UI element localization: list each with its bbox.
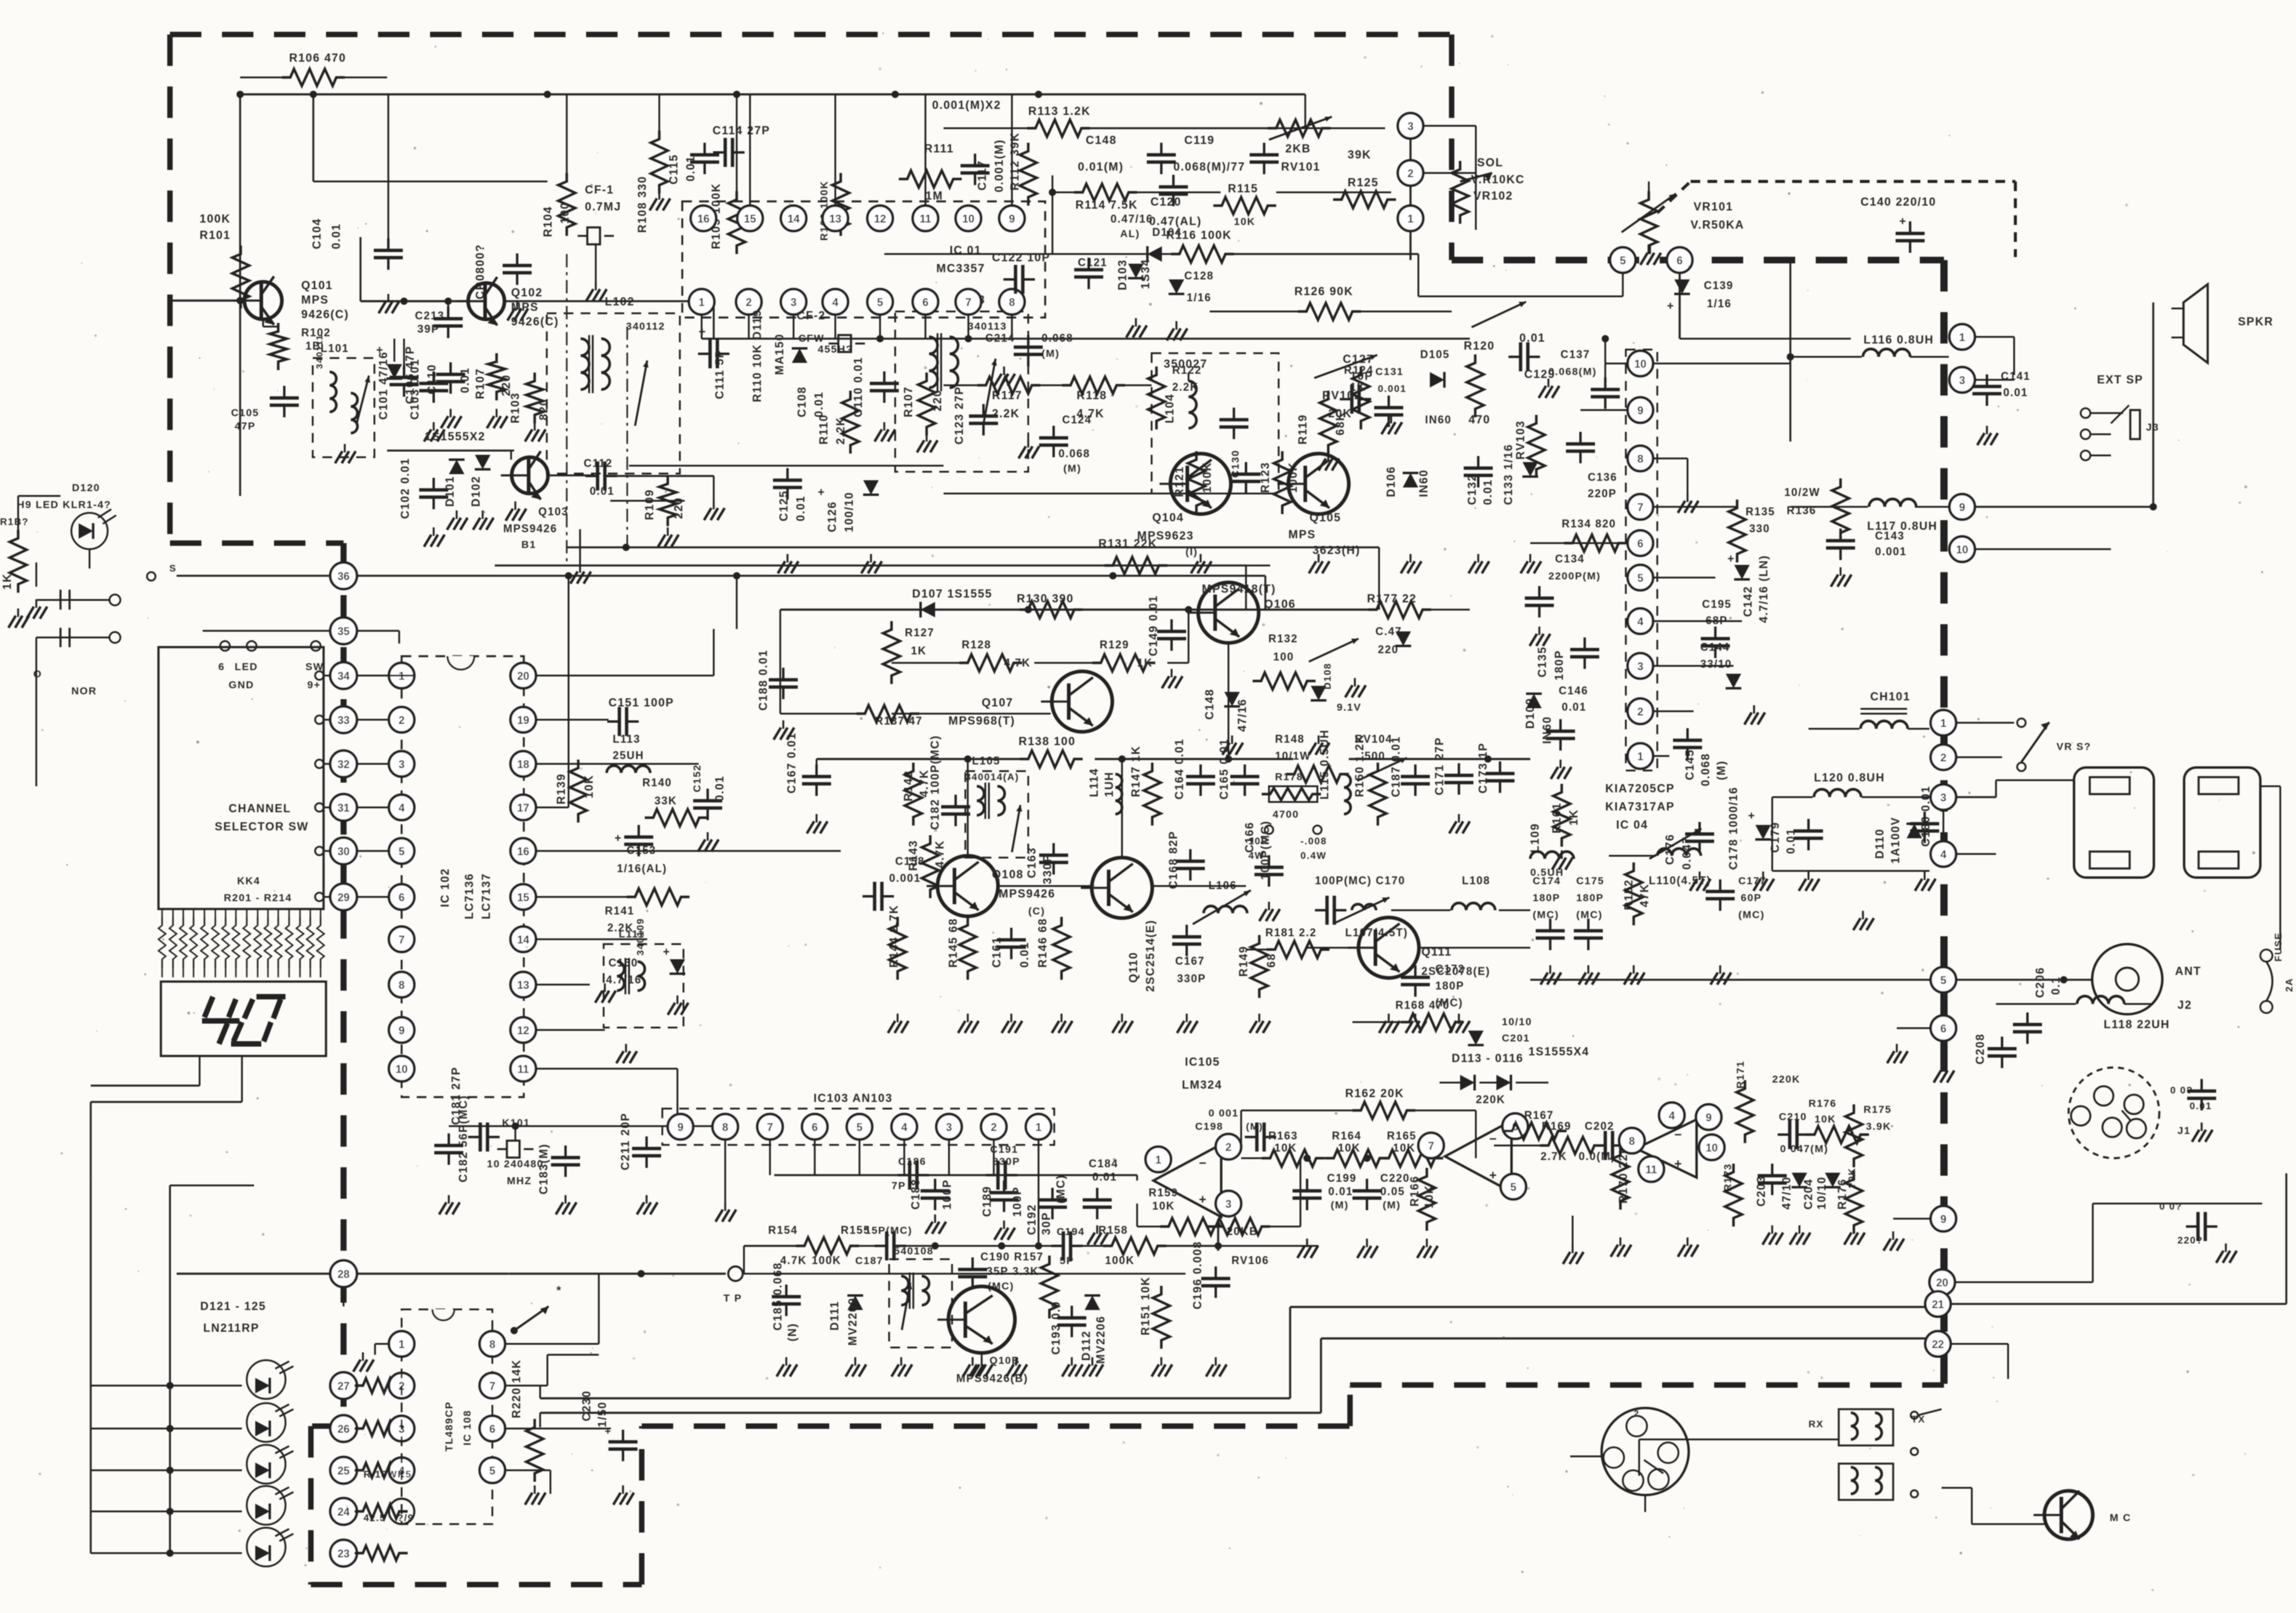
svg-text:+: + <box>615 832 622 845</box>
svg-text:20: 20 <box>1936 1277 1948 1289</box>
svg-text:100K: 100K <box>812 1254 841 1266</box>
svg-text:C119: C119 <box>1184 134 1215 147</box>
svg-text:100: 100 <box>1273 651 1294 663</box>
svg-text:R151 10K: R151 10K <box>1140 1276 1152 1335</box>
svg-text:9: 9 <box>1940 1213 1946 1225</box>
svg-text:5: 5 <box>877 296 883 308</box>
svg-text:330: 330 <box>1749 523 1770 535</box>
svg-text:5: 5 <box>1510 1181 1516 1193</box>
svg-text:IC 108: IC 108 <box>461 1410 473 1445</box>
svg-text:C187 0.01: C187 0.01 <box>1390 736 1403 797</box>
svg-text:MA150: MA150 <box>774 333 786 375</box>
svg-text:10: 10 <box>962 213 974 225</box>
svg-text:IC103 AN103: IC103 AN103 <box>814 1092 893 1105</box>
svg-text:C188: C188 <box>910 1179 922 1210</box>
svg-text:C198: C198 <box>1195 1121 1224 1132</box>
svg-text:IC105: IC105 <box>1185 1056 1220 1069</box>
svg-text:18: 18 <box>517 758 529 771</box>
svg-text:R167: R167 <box>1524 1109 1554 1121</box>
svg-text:3: 3 <box>1637 660 1643 673</box>
svg-text:SELECTOR SW: SELECTOR SW <box>215 821 309 833</box>
svg-text:6: 6 <box>218 661 225 673</box>
svg-text:1K: 1K <box>1350 381 1366 393</box>
svg-text:−: − <box>1199 1156 1207 1170</box>
svg-text:C175: C175 <box>1576 875 1605 887</box>
svg-text:R165: R165 <box>1387 1130 1417 1142</box>
svg-text:0 0?: 0 0? <box>2159 1202 2182 1212</box>
svg-text:Q108: Q108 <box>992 868 1023 881</box>
svg-text:+: + <box>1199 1193 1207 1207</box>
svg-text:MPS9418(T): MPS9418(T) <box>1202 583 1276 596</box>
svg-text:IN60: IN60 <box>1418 469 1430 497</box>
svg-text:1: 1 <box>1407 213 1414 225</box>
svg-text:455H?: 455H? <box>818 344 853 355</box>
svg-text:R107: R107 <box>474 368 487 399</box>
svg-text:R119: R119 <box>1297 414 1309 445</box>
svg-text:L118 22UH: L118 22UH <box>2104 1018 2170 1031</box>
svg-text:2: 2 <box>1940 752 1946 764</box>
svg-text:1: 1 <box>1155 1154 1161 1166</box>
svg-text:(MC): (MC) <box>1055 1175 1068 1204</box>
svg-text:C167 0.01: C167 0.01 <box>786 732 798 793</box>
svg-text:LN211RP: LN211RP <box>203 1322 259 1335</box>
svg-text:D112: D112 <box>1080 1331 1093 1361</box>
svg-text:340014(A): 340014(A) <box>965 772 1019 783</box>
svg-text:D105: D105 <box>1420 348 1450 360</box>
svg-text:220P: 220P <box>1588 487 1617 500</box>
svg-text:C152: C152 <box>691 764 703 792</box>
svg-text:9+: 9+ <box>307 679 321 691</box>
svg-text:0.01: 0.01 <box>330 223 343 249</box>
svg-text:RX: RX <box>1808 1419 1824 1430</box>
svg-text:3: 3 <box>399 758 405 771</box>
svg-text:220: 220 <box>931 389 944 411</box>
svg-text:16: 16 <box>697 213 709 225</box>
svg-text:5: 5 <box>399 846 405 858</box>
svg-text:10: 10 <box>1706 1142 1718 1154</box>
svg-text:Q106: Q106 <box>1264 598 1296 611</box>
svg-text:C191: C191 <box>990 1144 1019 1155</box>
svg-text:R115: R115 <box>1228 183 1258 195</box>
svg-text:R1B?: R1B? <box>0 517 29 527</box>
svg-text:9: 9 <box>399 1025 405 1037</box>
svg-text:0.01: 0.01 <box>1019 942 1031 968</box>
svg-text:+: + <box>376 344 384 357</box>
svg-text:(M): (M) <box>1331 1199 1349 1211</box>
svg-text:MPS9426: MPS9426 <box>503 523 558 535</box>
svg-text:L113: L113 <box>613 733 641 745</box>
svg-text:R154: R154 <box>768 1224 798 1236</box>
svg-text:0 001: 0 001 <box>1208 1107 1239 1119</box>
svg-text:+: + <box>1899 215 1907 228</box>
svg-text:R113 1.2K: R113 1.2K <box>1028 105 1091 118</box>
svg-text:+: + <box>818 486 826 499</box>
svg-text:0.068: 0.068 <box>1058 448 1091 460</box>
svg-text:R120: R120 <box>1464 340 1495 353</box>
svg-text:C230: C230 <box>581 1390 593 1421</box>
svg-text:R131 22K: R131 22K <box>1098 538 1158 550</box>
svg-text:R124: R124 <box>1344 364 1374 376</box>
svg-text:CFW: CFW <box>798 333 824 344</box>
svg-text:L104: L104 <box>1164 394 1176 423</box>
svg-text:3: 3 <box>791 296 797 308</box>
svg-text:C111 5P: C111 5P <box>714 350 726 399</box>
svg-text:32: 32 <box>338 758 350 771</box>
svg-text:CF-1: CF-1 <box>585 184 614 197</box>
svg-text:GND: GND <box>229 679 254 691</box>
svg-text:470: 470 <box>1469 414 1490 426</box>
svg-text:C193 0.0: C193 0.0 <box>1050 1301 1063 1355</box>
svg-text:C177: C177 <box>1738 875 1767 887</box>
svg-text:J2: J2 <box>2177 999 2192 1012</box>
svg-text:D106: D106 <box>1385 466 1398 497</box>
svg-text:MPS9426(B): MPS9426(B) <box>956 1372 1028 1384</box>
svg-text:30P: 30P <box>1040 1212 1053 1235</box>
svg-text:R107: R107 <box>902 386 915 417</box>
svg-text:10: 10 <box>396 1063 408 1075</box>
svg-text:22: 22 <box>1932 1338 1944 1351</box>
svg-text:4.7/16 (LN): 4.7/16 (LN) <box>1758 555 1770 623</box>
svg-text:C123 27P: C123 27P <box>953 386 966 445</box>
svg-text:(M): (M) <box>1246 1122 1263 1132</box>
svg-text:6: 6 <box>922 296 928 308</box>
svg-text:3: 3 <box>1225 1198 1231 1210</box>
svg-text:+: + <box>1667 300 1675 313</box>
svg-text:*: * <box>556 1285 562 1297</box>
svg-text:D104: D104 <box>1152 226 1182 238</box>
svg-text:1M: 1M <box>925 190 943 203</box>
svg-text:C172: C172 <box>1435 963 1465 975</box>
svg-text:R127: R127 <box>905 627 934 639</box>
svg-text:C188 0.01: C188 0.01 <box>757 650 770 711</box>
svg-text:23: 23 <box>338 1548 350 1560</box>
svg-text:2.7K: 2.7K <box>1541 1150 1567 1162</box>
svg-text:1K: 1K <box>1 573 14 590</box>
svg-text:MPS968(T): MPS968(T) <box>948 715 1016 728</box>
svg-text:1: 1 <box>1959 331 1965 344</box>
svg-text:R103: R103 <box>509 393 522 423</box>
svg-text:180P: 180P <box>1435 980 1464 992</box>
svg-text:9: 9 <box>1637 405 1643 417</box>
svg-text:100K: 100K <box>200 213 230 226</box>
svg-text:29: 29 <box>338 891 350 904</box>
svg-text:C167: C167 <box>1175 955 1205 967</box>
svg-text:10K: 10K <box>1234 216 1256 227</box>
svg-text:9: 9 <box>677 1121 683 1133</box>
svg-text:2KB: 2KB <box>1285 143 1311 155</box>
svg-text:28: 28 <box>338 1268 350 1280</box>
svg-text:100P: 100P <box>1011 1187 1024 1217</box>
svg-text:8: 8 <box>1637 453 1643 465</box>
svg-text:R146 68: R146 68 <box>1037 918 1049 968</box>
svg-text:C148: C148 <box>1204 689 1216 720</box>
svg-text:C134: C134 <box>1555 553 1585 565</box>
svg-text:IC 01: IC 01 <box>950 244 982 257</box>
svg-text:D121 - 125: D121 - 125 <box>200 1300 266 1313</box>
svg-text:C149 0.01: C149 0.01 <box>1147 595 1160 656</box>
svg-text:L116 0.8UH: L116 0.8UH <box>1864 334 1934 347</box>
svg-text:34: 34 <box>338 670 350 682</box>
svg-text:0.001(M)X2: 0.001(M)X2 <box>932 99 1001 112</box>
svg-text:8: 8 <box>1629 1135 1635 1147</box>
svg-text:5: 5 <box>1637 572 1643 584</box>
svg-text:S: S <box>169 564 177 574</box>
svg-text:O: O <box>33 668 42 680</box>
svg-text:C211 20P: C211 20P <box>619 1113 632 1170</box>
svg-text:D111: D111 <box>829 1301 841 1331</box>
svg-text:Q104: Q104 <box>1152 512 1184 524</box>
svg-text:10K: 10K <box>1815 1113 1836 1125</box>
svg-text:1/16(AL): 1/16(AL) <box>617 862 667 875</box>
svg-text:6: 6 <box>812 1121 818 1133</box>
svg-text:100P: 100P <box>941 1179 954 1210</box>
svg-text:68: 68 <box>1265 953 1278 968</box>
svg-text:C153: C153 <box>627 844 656 856</box>
svg-text:35: 35 <box>338 625 350 637</box>
svg-text:RV106: RV106 <box>1231 1254 1269 1266</box>
svg-text:R128: R128 <box>962 639 991 651</box>
svg-text:(MC): (MC) <box>1533 909 1559 921</box>
svg-text:LC7136: LC7136 <box>463 873 476 919</box>
svg-text:C142: C142 <box>1742 586 1755 617</box>
svg-text:C210: C210 <box>1779 1111 1807 1123</box>
svg-text:4700: 4700 <box>1273 809 1299 820</box>
svg-text:MPS: MPS <box>511 301 539 314</box>
svg-text:11: 11 <box>517 1063 529 1075</box>
svg-text:6: 6 <box>1940 1023 1946 1035</box>
svg-text:R137 47: R137 47 <box>875 715 923 727</box>
svg-text:NOR: NOR <box>71 685 97 697</box>
svg-text:5: 5 <box>1940 974 1946 986</box>
svg-text:L115 0.5UH: L115 0.5UH <box>1319 729 1331 800</box>
svg-text:340113: 340113 <box>968 321 1007 332</box>
svg-text:0.068(M)/77: 0.068(M)/77 <box>1173 161 1245 174</box>
svg-text:10/1W: 10/1W <box>1275 750 1311 762</box>
svg-text:R101: R101 <box>200 229 230 242</box>
svg-text:4.7K: 4.7K <box>1004 657 1031 669</box>
svg-text:C186: C186 <box>898 1156 927 1167</box>
svg-text:2200P(M): 2200P(M) <box>1548 570 1601 582</box>
svg-text:C206: C206 <box>2034 967 2047 998</box>
svg-text:42.5 - ?/9: 42.5 - ?/9 <box>364 1513 414 1523</box>
svg-text:20: 20 <box>517 670 529 682</box>
svg-text:2SC2514(E): 2SC2514(E) <box>1144 919 1157 992</box>
svg-text:3: 3 <box>1407 120 1414 132</box>
svg-text:C121: C121 <box>1078 256 1107 269</box>
svg-text:SOL: SOL <box>1477 157 1504 169</box>
svg-text:C164 0.01: C164 0.01 <box>1173 738 1186 800</box>
svg-text:R175: R175 <box>1864 1104 1892 1115</box>
svg-text:MPS: MPS <box>1288 529 1316 541</box>
svg-text:2: 2 <box>746 296 752 308</box>
svg-text:(C): (C) <box>1028 905 1045 917</box>
svg-text:VR S?: VR S? <box>2056 741 2092 752</box>
svg-text:CH101: CH101 <box>1870 691 1911 703</box>
svg-text:C133 1/16: C133 1/16 <box>1502 444 1515 505</box>
svg-text:MV2209: MV2209 <box>847 1297 859 1346</box>
svg-text:4: 4 <box>399 802 405 814</box>
svg-text:C135: C135 <box>1536 647 1549 677</box>
svg-text:*: * <box>1458 1018 1463 1031</box>
svg-text:-.008: -.008 <box>1300 836 1327 847</box>
svg-text:15: 15 <box>517 891 529 904</box>
svg-text:Q110: Q110 <box>1127 952 1140 983</box>
svg-text:17: 17 <box>517 802 529 814</box>
svg-text:15P(MC): 15P(MC) <box>865 1225 913 1236</box>
svg-text:C101 47/16: C101 47/16 <box>377 351 390 420</box>
svg-text:6: 6 <box>1677 255 1683 267</box>
svg-text:R132: R132 <box>1268 633 1298 645</box>
svg-text:3: 3 <box>946 1121 952 1133</box>
svg-text:R176: R176 <box>1808 1098 1837 1109</box>
svg-text:6: 6 <box>399 891 405 904</box>
svg-text:180P: 180P <box>1533 892 1561 904</box>
svg-text:+: + <box>1674 1157 1683 1171</box>
svg-text:C137: C137 <box>1561 348 1590 360</box>
svg-text:100/10: 100/10 <box>843 492 856 532</box>
svg-text:4.7K: 4.7K <box>934 840 947 868</box>
svg-text:(M): (M) <box>1063 463 1081 474</box>
svg-text:10K: 10K <box>1152 1200 1175 1212</box>
svg-text:D103: D103 <box>1117 259 1129 290</box>
svg-text:9: 9 <box>1706 1112 1712 1124</box>
svg-text:+: + <box>1489 1168 1498 1182</box>
svg-text:C120: C120 <box>1150 196 1181 209</box>
svg-text:0.01: 0.01 <box>1328 1185 1353 1198</box>
svg-text:4: 4 <box>832 296 838 308</box>
svg-text:R143: R143 <box>907 840 920 871</box>
svg-text:33K: 33K <box>654 795 677 807</box>
svg-text:0.068(M): 0.068(M) <box>1548 366 1597 377</box>
svg-text:R122: R122 <box>1172 364 1202 376</box>
svg-text:C122 10P: C122 10P <box>992 252 1051 264</box>
svg-text:C171 27P: C171 27P <box>1433 737 1446 795</box>
svg-text:J1: J1 <box>2177 1125 2191 1136</box>
svg-text:H9 LED KLR1-4?: H9 LED KLR1-4? <box>17 499 111 510</box>
svg-text:12: 12 <box>517 1025 529 1037</box>
svg-text:1UH: 1UH <box>1103 771 1116 797</box>
svg-text:IN60: IN60 <box>1425 414 1452 426</box>
svg-text:33: 33 <box>338 714 350 726</box>
svg-text:C204: C204 <box>1802 1179 1815 1210</box>
svg-text:8: 8 <box>1009 296 1015 308</box>
svg-text:C202: C202 <box>1585 1120 1614 1132</box>
svg-text:4: 4 <box>1637 616 1643 628</box>
svg-text:D113 - 0116: D113 - 0116 <box>1452 1052 1524 1065</box>
svg-text:16: 16 <box>517 846 529 858</box>
svg-text:C203: C203 <box>1755 1176 1768 1207</box>
svg-text:R139: R139 <box>555 774 568 804</box>
svg-text:?9K: ?9K <box>1847 1167 1857 1188</box>
svg-text:100P(MC): 100P(MC) <box>1259 820 1272 880</box>
svg-text:R178: R178 <box>1275 771 1303 783</box>
svg-text:C126: C126 <box>826 501 839 532</box>
svg-text:C108: C108 <box>796 386 809 417</box>
svg-text:220K: 220K <box>1476 1093 1505 1106</box>
svg-text:R141: R141 <box>605 905 634 917</box>
svg-text:L108: L108 <box>1462 875 1490 887</box>
svg-text:D107 1S1555: D107 1S1555 <box>912 588 993 601</box>
svg-text:MV2206: MV2206 <box>1095 1315 1107 1364</box>
svg-text:R164: R164 <box>1332 1130 1362 1142</box>
svg-text:1S1555X2: 1S1555X2 <box>425 431 486 443</box>
svg-text:C192: C192 <box>1026 1204 1039 1235</box>
svg-text:C178 1000/16: C178 1000/16 <box>1727 787 1740 870</box>
svg-text:10 240480: 10 240480 <box>487 1158 544 1170</box>
svg-text:21: 21 <box>1932 1299 1944 1311</box>
svg-text:D110: D110 <box>1874 829 1887 859</box>
svg-text:C128: C128 <box>1184 270 1214 282</box>
svg-text:1/16: 1/16 <box>1187 292 1212 304</box>
svg-text:Q101: Q101 <box>301 279 333 292</box>
svg-text:R109: R109 <box>644 489 656 520</box>
svg-text:L110(4.5T): L110(4.5T) <box>1649 875 1711 887</box>
svg-text:R123: R123 <box>1259 462 1272 493</box>
svg-text:35P 3.3K: 35P 3.3K <box>987 1265 1039 1277</box>
svg-text:11: 11 <box>919 213 931 225</box>
svg-text:R106 470: R106 470 <box>289 52 346 65</box>
svg-text:C145: C145 <box>1684 749 1697 780</box>
svg-text:6: 6 <box>1637 538 1643 550</box>
svg-text:1: 1 <box>1940 717 1946 729</box>
svg-text:C179: C179 <box>1769 822 1782 853</box>
svg-text:D101: D101 <box>444 476 457 507</box>
svg-text:33/10: 33/10 <box>1700 658 1732 670</box>
svg-text:8: 8 <box>399 979 405 991</box>
svg-text:60P: 60P <box>1741 892 1762 904</box>
svg-text:D102: D102 <box>470 476 483 507</box>
svg-text:2: 2 <box>1225 1141 1231 1153</box>
svg-text:C102 0.01: C102 0.01 <box>399 458 412 519</box>
svg-text:R150 1.2K: R150 1.2K <box>1354 734 1366 797</box>
svg-text:0.0(M): 0.0(M) <box>1579 1150 1616 1162</box>
svg-text:R162 20K: R162 20K <box>1345 1087 1404 1100</box>
svg-text:10: 10 <box>1956 544 1968 556</box>
svg-text:3: 3 <box>1959 374 1965 386</box>
svg-text:C183(M): C183(M) <box>538 1144 550 1194</box>
svg-text:8: 8 <box>489 1338 495 1351</box>
svg-text:7: 7 <box>489 1380 495 1392</box>
svg-text:7P: 7P <box>892 1180 906 1191</box>
svg-text:1K: 1K <box>911 645 927 657</box>
svg-text:(N): (N) <box>786 1323 799 1341</box>
svg-text:220?: 220? <box>2177 1236 2203 1246</box>
svg-text:C208: C208 <box>1974 1034 1987 1064</box>
svg-text:4: 4 <box>901 1121 907 1133</box>
svg-text:2.2K: 2.2K <box>992 408 1020 420</box>
svg-text:2: 2 <box>991 1121 997 1133</box>
svg-text:VR101: VR101 <box>1694 201 1733 213</box>
svg-text:R111: R111 <box>924 143 954 155</box>
svg-text:VR102: VR102 <box>1473 190 1513 203</box>
svg-text:5: 5 <box>489 1465 495 1477</box>
svg-text:SPKR: SPKR <box>2238 316 2274 328</box>
svg-text:0.01: 0.01 <box>2003 386 2028 399</box>
svg-text:M C: M C <box>2110 1512 2131 1523</box>
svg-text:LM324: LM324 <box>1182 1079 1222 1092</box>
svg-text:(MC): (MC) <box>1738 909 1765 921</box>
svg-text:R140: R140 <box>642 777 672 789</box>
svg-text:19: 19 <box>517 714 529 726</box>
svg-text:0.01: 0.01 <box>714 775 726 801</box>
svg-text:10/10: 10/10 <box>1816 1176 1828 1210</box>
svg-text:39K: 39K <box>1348 149 1371 161</box>
svg-text:180P: 180P <box>1576 892 1604 904</box>
svg-text:0.001: 0.001 <box>1875 546 1907 558</box>
svg-text:7: 7 <box>399 934 405 946</box>
svg-text:IN60: IN60 <box>1541 716 1554 744</box>
svg-text:KIA7205CP: KIA7205CP <box>1605 783 1675 795</box>
